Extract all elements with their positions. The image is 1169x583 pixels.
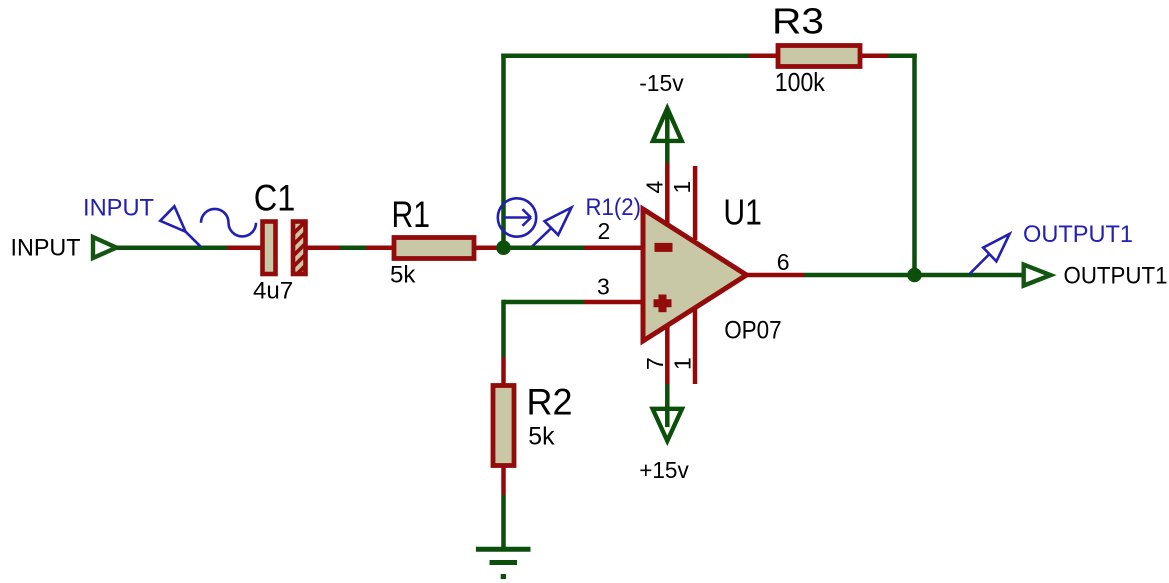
wire R2 to ground (501, 495, 506, 549)
resistor R3 (778, 46, 860, 67)
pin stub C1 right (305, 245, 340, 250)
power -15v wire (665, 112, 670, 163)
pin stub R2 bottom (501, 466, 506, 496)
resistor R1 (394, 238, 474, 259)
current probe circle (blue) (498, 198, 536, 236)
pin stub op-amp pin2 (584, 245, 643, 250)
wire corner to pin3 (504, 300, 585, 305)
svg-text:OUTPUT1: OUTPUT1 (1023, 221, 1133, 248)
wire R3 to right corner (888, 53, 917, 58)
svg-text:INPUT: INPUT (11, 235, 81, 262)
wire node to pin2 (504, 245, 585, 250)
power +15v wire (665, 384, 670, 427)
pin stub pin4 (top) (665, 163, 670, 226)
svg-text:1: 1 (670, 357, 696, 370)
svg-text:U1: U1 (723, 191, 762, 232)
svg-text:+15v: +15v (639, 457, 689, 483)
wire feedback top (501, 53, 749, 58)
wire input terminal to C1 (116, 245, 227, 250)
svg-text:OP07: OP07 (724, 317, 782, 345)
pin stub pin7 (bottom) (665, 324, 670, 384)
svg-text:R1: R1 (392, 194, 431, 235)
svg-text:1: 1 (669, 181, 695, 194)
probe arrowhead (160, 206, 185, 231)
pin stub pin6 (747, 273, 805, 278)
svg-text:INPUT: INPUT (83, 195, 154, 222)
pin stub pin1 (top) (693, 166, 698, 240)
svg-text:R1(2): R1(2) (586, 194, 642, 221)
svg-text:-15v: -15v (639, 70, 684, 96)
pin stub C1 left (227, 245, 261, 250)
probe tail (186, 232, 201, 247)
pin stub R1 right (474, 245, 503, 250)
pin stub op-amp pin3 (584, 300, 643, 305)
power -15v arrow (653, 108, 682, 141)
pin stub R3 right (860, 53, 888, 58)
probe R1(2) arrow (blue) (531, 208, 572, 248)
svg-text:R2: R2 (527, 382, 573, 423)
C1 left plate (263, 222, 276, 275)
probe sine wave (201, 209, 256, 237)
ground (476, 549, 531, 576)
node junction at R1 output (496, 240, 511, 255)
op-amp minus symbol (655, 243, 673, 252)
wire node B to output terminal (915, 273, 1024, 278)
wire C1 to R1 (340, 245, 366, 250)
wire right vertical down (912, 54, 917, 276)
output terminal (1024, 265, 1051, 286)
probe OUTPUT1 arrow (blue) (970, 234, 1010, 274)
svg-text:7: 7 (642, 357, 668, 370)
pin stub R3 left (749, 53, 778, 58)
svg-text:R3: R3 (772, 1, 824, 42)
capacitor C1 (263, 204, 313, 285)
wire feedback up from node (501, 54, 506, 248)
svg-text:4u7: 4u7 (253, 277, 293, 304)
pin stub R1 left (366, 245, 394, 250)
svg-text:100k: 100k (775, 67, 826, 97)
svg-text:4: 4 (642, 181, 668, 194)
svg-text:OUTPUT1: OUTPUT1 (1064, 263, 1168, 290)
op-amp U1 body (643, 209, 747, 341)
svg-text:6: 6 (777, 249, 790, 275)
svg-text:C1: C1 (254, 178, 295, 219)
pin stub pin1 (bottom) (693, 308, 698, 384)
power +15v arrow (653, 409, 682, 441)
resistor R2 (493, 386, 514, 466)
C1 right plate (hatched) (293, 222, 306, 275)
op-amp plus symbol (654, 295, 672, 313)
wire down to R2 (501, 300, 506, 357)
svg-text:3: 3 (597, 274, 610, 300)
wire pin6 to node B (804, 273, 915, 278)
svg-text:2: 2 (598, 218, 611, 244)
svg-text:5k: 5k (390, 261, 416, 288)
probe INPUT (blue) (160, 206, 256, 247)
svg-text:5k: 5k (528, 423, 555, 451)
input terminal (93, 237, 116, 258)
node junction at output (907, 268, 922, 283)
pin stub R2 top (501, 357, 506, 384)
